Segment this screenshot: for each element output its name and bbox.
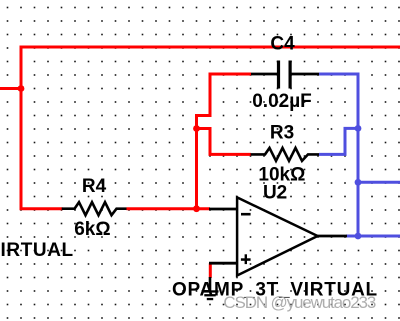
wire red from R4 right to op-amp minus input [127,207,211,210]
wire blue stub to right edge at y=182.3 [358,181,400,184]
node junction red at (21,88.5) [18,85,25,92]
wire red top net: left vertical, top horizontal to right edge, down to R4 [21,47,400,209]
svg-text:IRTUAL: IRTUAL [1,240,74,261]
svg-text:0.02µF: 0.02µF [252,91,312,112]
node junction red at (196.5,208.7) [193,205,200,212]
node junction red at (196.5,128.5) [193,125,200,132]
wire blue branch to R3 right [319,128,358,154]
op-amp U2 output pin lead [318,235,348,238]
node junction blue at (358,236) [355,233,362,240]
svg-text:R4: R4 [82,176,107,197]
svg-text:CSDN @yuewutao233: CSDN @yuewutao233 [223,293,375,312]
wire blue output to right edge [346,235,400,238]
capacitor C4 leads [251,73,319,76]
resistor R3 [251,148,319,161]
op-amp U2 minus sign [241,213,251,216]
svg-text:6kΩ: 6kΩ [74,219,110,240]
op-amp U2 non-inverting input pin lead [209,262,238,265]
resistor R4 [62,202,127,215]
svg-text:U2: U2 [263,182,287,203]
svg-text:C4: C4 [270,34,295,55]
wire blue from C4 right to vertical bus [319,74,358,236]
wire red stub to left edge [0,87,21,90]
wire red branch to R3 left [197,129,252,155]
node junction blue at (358,128.4) [355,125,362,132]
capacitor C4 plates [277,61,280,89]
op-amp U2 inverting input pin lead [209,208,238,211]
wire red feedback: from C4 left down with jog to vertical net [197,74,252,209]
ground symbol bars [202,290,219,300]
ground symbol stem [209,277,212,291]
node junction blue at (358,182.3) [355,179,362,186]
op-amp U2 triangle [237,197,318,275]
wire red from plus input down to ground [209,263,212,278]
op-amp U2 plus sign [241,254,251,264]
svg-text:R3: R3 [270,123,294,144]
